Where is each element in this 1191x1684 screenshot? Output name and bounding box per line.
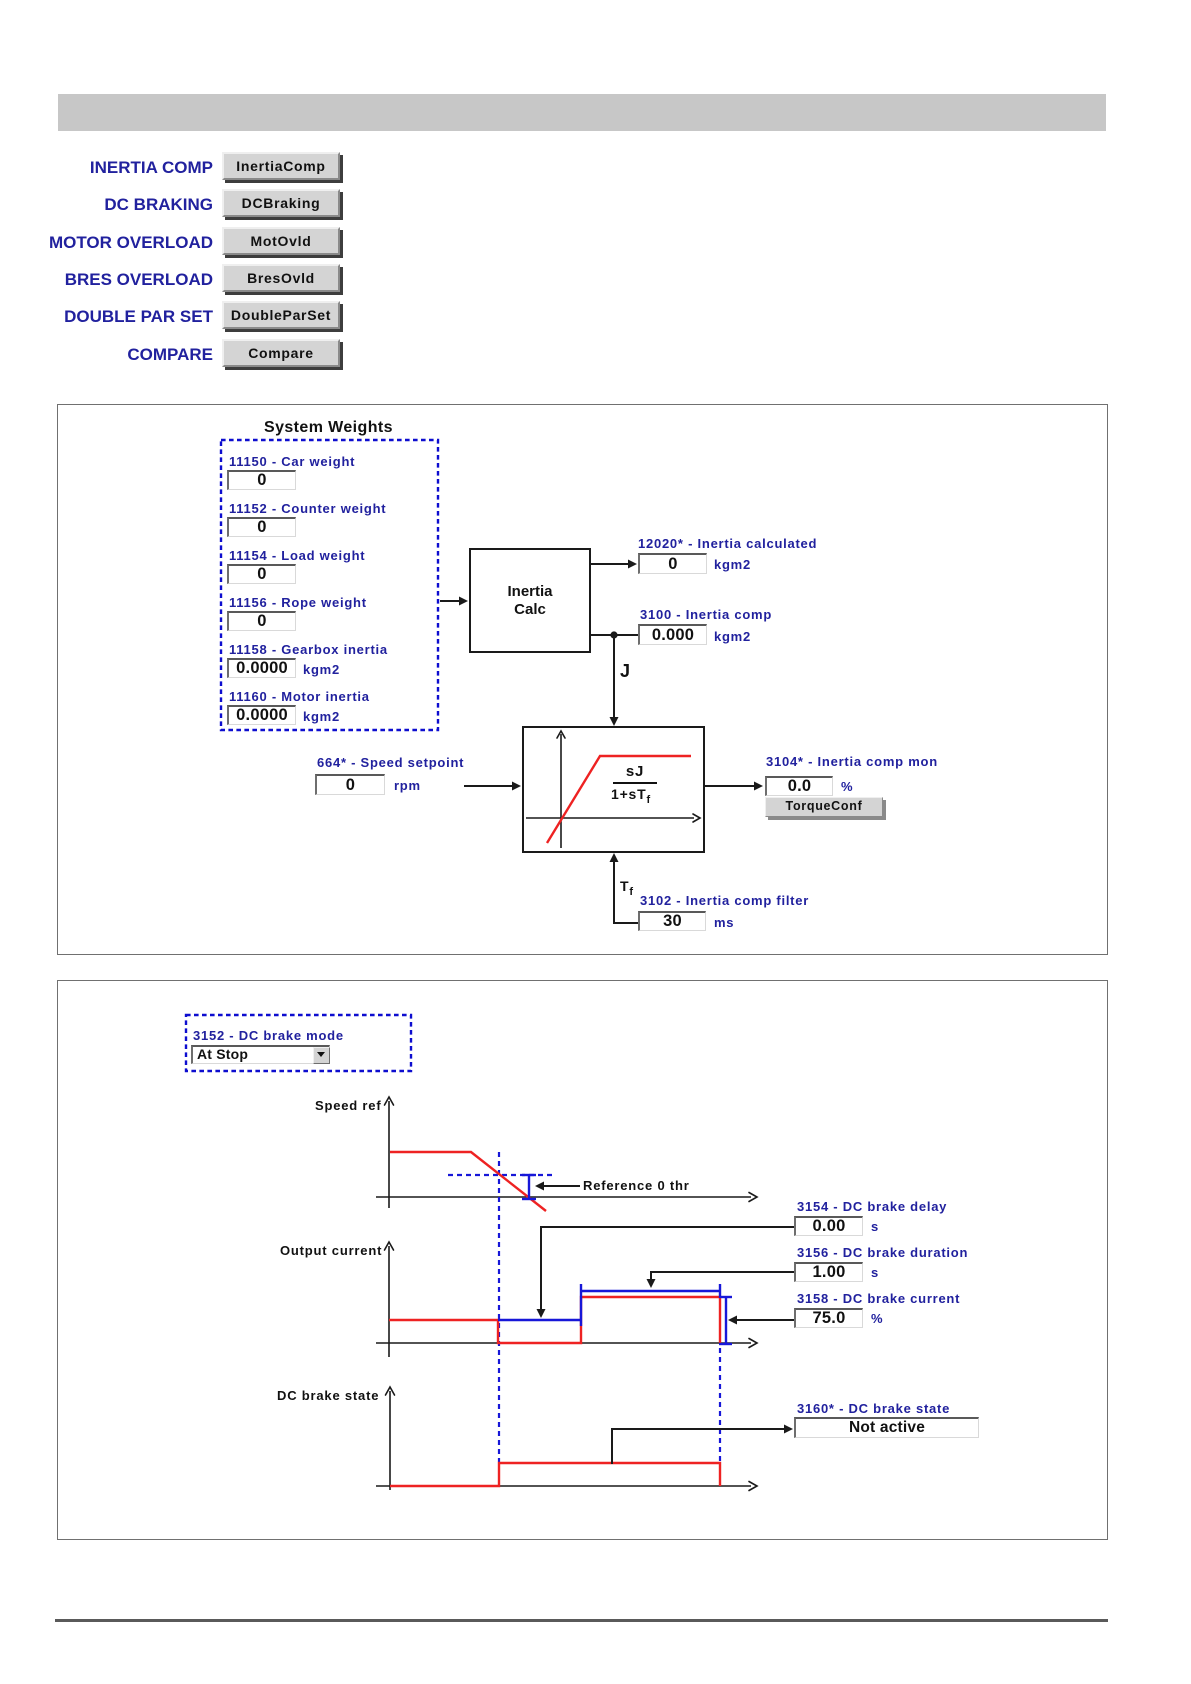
speed ref horizontal axis [376, 1196, 751, 1198]
connector 3158 to chart [735, 1319, 794, 1321]
param 11152 Counter weight label [229, 501, 386, 516]
unit kgm2 [303, 662, 340, 677]
dropdown At Stop [191, 1045, 330, 1064]
fraction sJ [613, 763, 657, 780]
field 3154 value 0.00 [794, 1216, 863, 1236]
field 3102 value 30 [638, 911, 706, 931]
label J [620, 661, 631, 682]
panel1 title System Weights [264, 419, 393, 437]
button MotOvld [222, 227, 340, 255]
button DoubleParSet [222, 301, 340, 329]
unit kgm2 [714, 557, 751, 572]
label 3102 Inertia comp filter [640, 893, 809, 908]
wire speed setpoint to block [464, 785, 514, 787]
label 3160 DC brake state [797, 1401, 950, 1416]
field 11150 value 0 [227, 470, 296, 490]
unit % [841, 779, 853, 794]
output current vertical axis [388, 1246, 390, 1357]
button Compare [222, 339, 340, 367]
label 3158 DC brake current [797, 1291, 960, 1306]
param 11160 Motor inertia label [229, 689, 370, 704]
red saturation curve [547, 756, 691, 843]
h axis [526, 817, 694, 819]
fraction bar [613, 782, 657, 784]
param 11158 Gearbox inertia label [229, 642, 388, 657]
field 11156 value 0 [227, 611, 296, 631]
block Inertia Calc [469, 548, 591, 653]
label DC BRAKING [104, 195, 213, 215]
blue cap top [720, 1296, 732, 1298]
inner axes of transfer block [526, 734, 694, 848]
dc brake state horizontal axis [376, 1485, 751, 1487]
field 3160 value Not active [794, 1417, 979, 1438]
blue cap bottom [719, 1343, 732, 1345]
unit % [871, 1311, 883, 1326]
label Reference 0 thr [583, 1178, 690, 1193]
blue vertical at brake end [725, 1297, 727, 1344]
h axis chevron arrowhead [693, 814, 700, 822]
label 3152 DC brake mode [193, 1028, 344, 1043]
blue dashed vertical line 1 [498, 1152, 500, 1462]
unit kgm2 [714, 629, 751, 644]
unit rpm [394, 778, 421, 793]
field 11152 value 0 [227, 517, 296, 537]
junction J [610, 631, 617, 638]
wire dashed-box to InertiaCalc [440, 600, 461, 602]
blue top segment during brake [581, 1290, 720, 1292]
field 3156 value 1.00 [794, 1262, 863, 1282]
label INERTIA COMP [90, 158, 213, 178]
wire Tf elbow [614, 861, 638, 923]
blue stub at brake end [719, 1284, 721, 1298]
label DOUBLE PAR SET [64, 307, 213, 327]
transfer function block sJ/(1+sTf) [522, 726, 705, 853]
v axis chevron arrowhead [557, 731, 565, 738]
state h-axis chevron [749, 1482, 757, 1491]
blue dashed horizontal threshold line [448, 1174, 555, 1176]
dropdown arrow button [313, 1047, 330, 1064]
fraction 1+sTf [611, 786, 651, 806]
wire InertiaCalc to 12020 field [591, 563, 629, 565]
connector 3154 to chart [541, 1227, 794, 1311]
field 3158 value 75.0 [794, 1308, 863, 1328]
state v-axis chevron [386, 1387, 395, 1395]
arrowhead Tf into block bottom [610, 853, 619, 862]
output v-axis chevron [385, 1242, 394, 1250]
param 11150 Car weight label [229, 454, 355, 469]
speed ref vertical axis [376, 1101, 751, 1490]
field 664 value 0 [315, 774, 385, 795]
dc brake state vertical axis [389, 1391, 391, 1490]
speed h-axis chevron [749, 1193, 757, 1202]
label Output current [280, 1243, 382, 1258]
button InertiaComp [222, 152, 340, 180]
label Tf [620, 878, 634, 898]
blue I-beam marker on speed ref [522, 1175, 536, 1199]
field 3104 value 0.0 [765, 776, 833, 796]
output h-axis chevron [749, 1339, 757, 1348]
connector chart to 3160 field [612, 1429, 786, 1464]
label 12020 Inertia calculated [638, 536, 817, 551]
speed v-axis chevron [385, 1097, 394, 1105]
label COMPARE [127, 345, 213, 365]
output current blue curve low segment [498, 1284, 732, 1344]
label BRES OVERLOAD [65, 270, 213, 290]
unit kgm2 [303, 709, 340, 724]
label DC brake state [277, 1388, 379, 1403]
param 11156 Rope weight label [229, 595, 367, 610]
footer rule [55, 1619, 1108, 1622]
field 3100 value 0.000 [638, 624, 707, 645]
label 3154 DC brake delay [797, 1199, 947, 1214]
arrowhead into 3104 field [754, 782, 763, 791]
header gray bar [58, 94, 1106, 131]
param 11154 Load weight label [229, 548, 365, 563]
wire block to 3104 field [705, 785, 756, 787]
button TorqueConf [765, 797, 883, 817]
arrowhead J into block [610, 717, 619, 726]
label MOTOR OVERLOAD [49, 233, 213, 253]
reference 0 thr arrow [542, 1185, 580, 1187]
dc brake state red curve [390, 1463, 720, 1486]
label 664 Speed setpoint [317, 755, 464, 770]
panel 2 frame [57, 980, 1108, 1540]
output current horizontal axis [376, 1342, 751, 1344]
speed ref red curve [390, 1152, 546, 1211]
wire InertiaCalc to 3100 field [591, 634, 638, 636]
unit s [871, 1219, 879, 1234]
field 11158 value 0.0000 [227, 658, 296, 678]
blue dashed vertical line 2 [719, 1348, 721, 1462]
output current red curve [389, 1297, 720, 1343]
arrowhead speed into block [512, 782, 521, 791]
panel 1 frame [57, 404, 1108, 955]
field 11154 value 0 [227, 564, 296, 584]
connector 3156 to chart [651, 1272, 794, 1281]
label 3104 Inertia comp mon [766, 754, 938, 769]
wire J vertical [613, 635, 615, 719]
button BresOvld [222, 264, 340, 292]
arrowhead into InertiaCalc [459, 597, 468, 606]
blue vertical at brake start [580, 1284, 582, 1326]
label 3156 DC brake duration [797, 1245, 968, 1260]
field 12020 value 0 [638, 553, 707, 574]
unit s [871, 1265, 879, 1280]
v axis [560, 734, 562, 848]
unit ms [714, 915, 734, 930]
button DCBraking [222, 189, 340, 217]
field 11160 value 0.0000 [227, 705, 296, 725]
label Speed ref [315, 1098, 381, 1113]
arrowhead into 12020 field [628, 560, 637, 569]
label 3100 Inertia comp [640, 607, 772, 622]
